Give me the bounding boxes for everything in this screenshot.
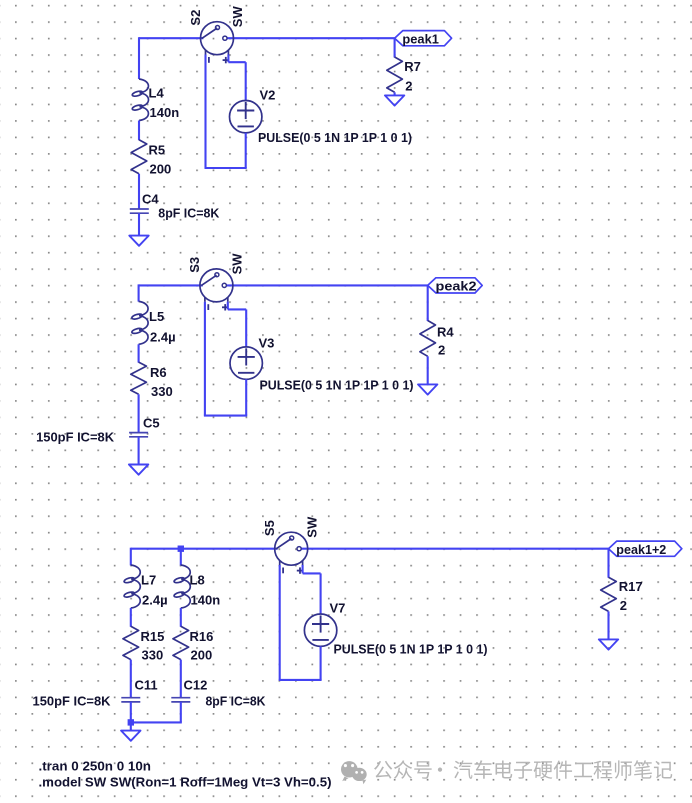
wire R7 to ground	[394, 92, 396, 95]
inductor L5	[131, 301, 148, 344]
svg-text:2: 2	[620, 598, 627, 613]
svg-text:S2: S2	[188, 10, 203, 26]
svg-text:peak1+2: peak1+2	[616, 542, 666, 557]
ground R4	[418, 384, 437, 394]
svg-text:C5: C5	[143, 415, 160, 430]
wire to V2 top	[228, 61, 245, 63]
voltage source V7	[304, 601, 345, 647]
svg-text:2: 2	[438, 342, 445, 357]
svg-text:V2: V2	[260, 88, 276, 103]
svg-text:330: 330	[142, 647, 164, 662]
watermark text 公众号·汽车电子硬件工程师笔记	[374, 760, 672, 779]
wire S3 to peak2	[227, 284, 428, 286]
wire S5 minus down	[279, 565, 281, 680]
wire R15 to C11	[130, 660, 132, 698]
wire V7 bottom	[320, 646, 322, 680]
svg-text:2: 2	[405, 78, 412, 93]
voltage source V3	[230, 335, 274, 379]
ground C5	[129, 465, 148, 475]
switch S5	[275, 532, 308, 574]
svg-text:.tran 0 250n 0 10n: .tran 0 250n 0 10n	[39, 758, 152, 773]
capacitor C12	[171, 698, 190, 702]
wire V2 bottom	[245, 133, 247, 168]
svg-text:V7: V7	[330, 601, 346, 616]
junction top	[178, 546, 184, 552]
svg-text:C12: C12	[184, 677, 208, 692]
wire top-left to S5	[131, 548, 278, 550]
wire to ground 3	[130, 722, 132, 730]
wire bottom join	[130, 721, 182, 723]
wire R4 to ground	[427, 356, 429, 384]
wire L8 to R16	[180, 608, 182, 627]
wire L7 to R15	[130, 608, 132, 627]
ground block3	[121, 731, 140, 741]
wire loop bottom 3	[279, 679, 322, 681]
wire C4 to ground	[138, 213, 140, 235]
wire to L4	[138, 37, 140, 79]
svg-text:150pF IC=8K: 150pF IC=8K	[36, 429, 115, 444]
wire L5 to R6	[138, 344, 140, 362]
resistor R7	[387, 57, 421, 93]
wire loop bottom 2	[204, 415, 247, 417]
svg-text:2.4µ: 2.4µ	[142, 593, 168, 608]
wire top-left to S2	[139, 37, 203, 39]
svg-text:L5: L5	[149, 309, 164, 324]
wire S5 plus down	[302, 565, 304, 573]
svg-text:PULSE(0 5 1N 1P 1P 1 0 1): PULSE(0 5 1N 1P 1P 1 0 1)	[258, 130, 412, 145]
wire S3 plus down	[227, 302, 229, 310]
net flag peak1+2	[609, 541, 682, 557]
wire R6 to C5	[138, 394, 140, 433]
svg-text:140n: 140n	[150, 105, 180, 120]
wire to L7	[130, 548, 132, 566]
ground R7	[385, 95, 404, 105]
wire S2 to peak1	[227, 37, 394, 39]
wire R17 to ground	[607, 611, 609, 639]
wire C5 to ground	[138, 437, 140, 465]
wire R16 to C12	[180, 660, 182, 698]
wire into V3	[245, 309, 247, 347]
wire top-left to S3	[139, 284, 203, 286]
wire V3 bottom	[245, 379, 247, 415]
capacitor C11	[121, 698, 140, 702]
svg-text:R4: R4	[437, 324, 454, 339]
svg-text:R7: R7	[404, 59, 421, 74]
svg-text:2.4µ: 2.4µ	[150, 329, 176, 344]
wire S3 minus down	[204, 302, 206, 416]
wire L4 to R5	[138, 121, 140, 141]
inductor L7	[124, 565, 141, 608]
svg-text:8pF IC=8K: 8pF IC=8K	[158, 206, 220, 221]
resistor R4	[420, 321, 454, 358]
svg-text:SW: SW	[230, 6, 245, 28]
svg-text:V3: V3	[259, 335, 275, 350]
svg-text:.model SW SW(Ron=1 Roff=1Meg V: .model SW SW(Ron=1 Roff=1Meg Vt=3 Vh=0.5…	[39, 774, 332, 789]
ground C4	[129, 236, 148, 246]
svg-text:SW: SW	[304, 516, 319, 538]
wire to L5	[138, 284, 140, 301]
svg-text:S3: S3	[187, 257, 202, 273]
inductor L8	[174, 565, 191, 608]
svg-text:peak1: peak1	[402, 31, 439, 46]
resistor R15	[123, 626, 164, 662]
junction bottom	[128, 719, 134, 725]
wire to L8	[180, 549, 182, 566]
resistor R17	[601, 577, 643, 613]
wire peak2 to R4	[427, 285, 429, 321]
voltage source V2	[230, 88, 276, 133]
svg-text:R17: R17	[619, 579, 643, 594]
svg-text:SW: SW	[230, 253, 245, 275]
wire S2 plus down	[227, 55, 229, 63]
net flag peak2	[428, 278, 483, 294]
svg-text:PULSE(0 5 1N 1P 1P 1 0 1): PULSE(0 5 1N 1P 1P 1 0 1)	[260, 377, 414, 392]
resistor R6	[131, 362, 173, 399]
wire peak1 to R7	[394, 38, 396, 57]
switch S2	[201, 22, 234, 64]
svg-text:L7: L7	[141, 573, 156, 588]
svg-text:L4: L4	[149, 86, 165, 101]
svg-text:150pF IC=8K: 150pF IC=8K	[33, 693, 112, 708]
svg-text:200: 200	[150, 161, 172, 176]
svg-text:R15: R15	[141, 629, 165, 644]
svg-text:peak2: peak2	[436, 279, 477, 294]
wire loop bottom	[205, 167, 247, 169]
wire into V2	[245, 62, 247, 100]
svg-text:C4: C4	[142, 192, 159, 207]
wire S5 to peak1+2	[301, 548, 608, 550]
capacitor C4	[130, 209, 149, 213]
svg-text:200: 200	[191, 647, 213, 662]
svg-text:L8: L8	[190, 573, 205, 588]
wire to V3 top	[228, 308, 246, 310]
svg-text:140n: 140n	[191, 593, 221, 608]
watermark wechat logo	[341, 761, 367, 784]
wire C12 down	[180, 702, 182, 723]
svg-text:C11: C11	[135, 677, 158, 692]
svg-text:PULSE(0 5 1N 1P 1P 1 0 1): PULSE(0 5 1N 1P 1P 1 0 1)	[334, 642, 488, 657]
svg-text:330: 330	[151, 384, 173, 399]
net flag peak1	[395, 31, 452, 47]
svg-text:R5: R5	[149, 143, 166, 158]
wire R5 to C4	[138, 174, 140, 210]
ground R17	[599, 639, 618, 649]
switch S3	[200, 269, 233, 311]
wire C11 down	[130, 702, 132, 723]
svg-text:S5: S5	[262, 520, 277, 536]
svg-text:R16: R16	[190, 629, 214, 644]
svg-text:R6: R6	[150, 365, 167, 380]
wire into V7	[320, 573, 322, 614]
wire S2 minus down	[204, 55, 206, 169]
inductor L4	[132, 79, 149, 121]
wire to V7 top	[303, 572, 321, 574]
resistor R5	[131, 140, 171, 177]
capacitor C5	[129, 433, 148, 437]
wire to R17	[607, 549, 609, 578]
svg-text:8pF IC=8K: 8pF IC=8K	[206, 693, 267, 708]
resistor R16	[173, 626, 213, 662]
